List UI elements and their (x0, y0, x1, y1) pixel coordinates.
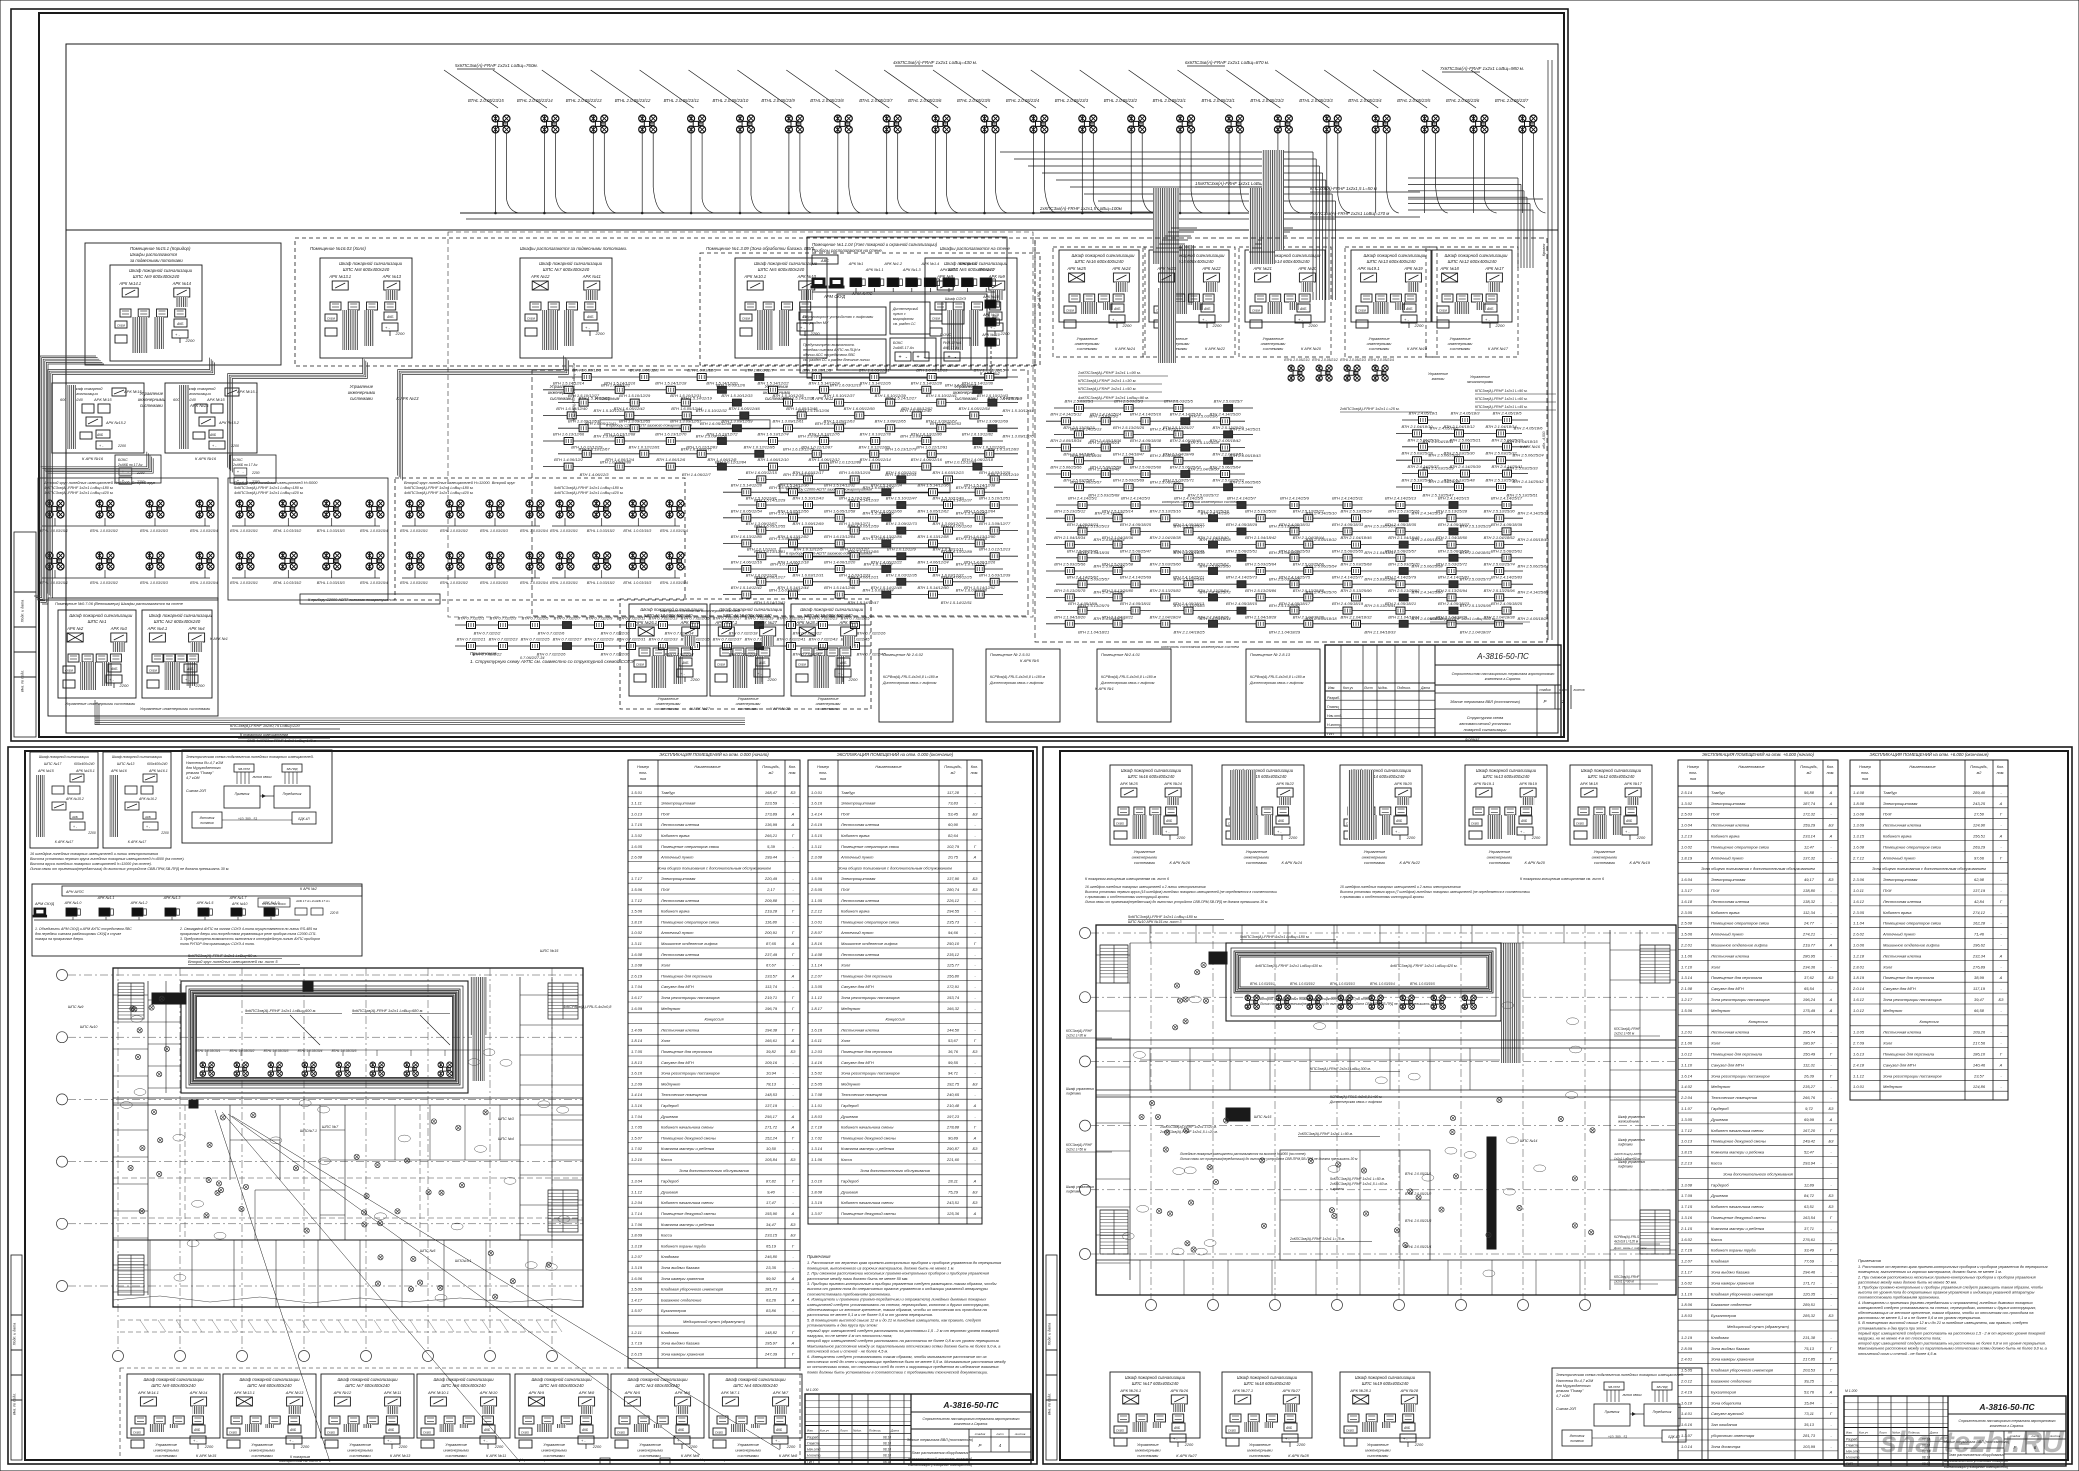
svg-text:Шкаф пожарной сигнализации: Шкаф пожарной сигнализации (69, 613, 133, 618)
svg-text:Г ОЧС: Г ОЧС (940, 333, 952, 337)
svg-text:АРК №1.5: АРК №1.5 (196, 901, 214, 905)
svg-text:АРК №28: АРК №28 (838, 620, 858, 625)
svg-text:АРК №10: АРК №10 (479, 1390, 498, 1395)
svg-text:АРК №2: АРК №2 (66, 626, 84, 631)
svg-text:2200: 2200 (1414, 1443, 1424, 1447)
svg-text:84,72: 84,72 (1804, 1193, 1815, 1198)
svg-text:280,95: 280,95 (1802, 953, 1816, 958)
svg-text:ПУИ: ПУИ (1711, 812, 1719, 817)
svg-text:+ -: + - (775, 1439, 780, 1443)
svg-text:Гардероб: Гардероб (841, 1179, 859, 1184)
svg-text:СКБИ: СКБИ (932, 317, 941, 321)
svg-text:Управление: Управление (1249, 1442, 1271, 1447)
svg-text:196,79: 196,79 (765, 1006, 778, 1011)
svg-text:67,67: 67,67 (766, 963, 777, 968)
svg-text:ВТН 2.4.14/25/77: ВТН 2.4.14/25/77 (1332, 575, 1364, 580)
svg-text:71,46: 71,46 (1974, 932, 1985, 937)
svg-text:АКБ 17 Ач: АКБ 17 Ач (942, 346, 959, 350)
svg-text:2.7.09: 2.7.09 (1852, 1041, 1865, 1046)
addressable detector chain ВТН 2.5.13/25 (1054, 433, 1253, 435)
svg-text:2200: 2200 (786, 1445, 796, 1449)
svg-text:ВТН 2.5.03/25/5: ВТН 2.5.03/25/5 (1164, 399, 1194, 404)
svg-text:159,29: 159,29 (1803, 823, 1816, 828)
svg-text:ВТН 1.0.12/12/89: ВТН 1.0.12/12/89 (859, 444, 891, 449)
svg-text:ВТН 1.4.06/12/18: ВТН 1.4.06/12/18 (777, 560, 809, 565)
svg-text:А: А (1829, 801, 1833, 806)
svg-text:ВТНL 2.0.05/23/12: ВТНL 2.0.05/23/12 (615, 98, 651, 103)
svg-text:2.0.12: 2.0.12 (1680, 1379, 1693, 1384)
svg-text:87,65: 87,65 (766, 941, 777, 946)
svg-text:ВТНL 1.0.03/15/2: ВТНL 1.0.03/15/2 (440, 529, 468, 533)
svg-text:АРК №15: АРК №15 (93, 397, 112, 402)
svg-text:режима "Пожар": режима "Пожар" (185, 771, 214, 775)
svg-text:Зона общего пользования с допо: Зона общего пользования с дополнительным… (1701, 866, 1815, 871)
svg-text:ВТН 1.6.03/12/25: ВТН 1.6.03/12/25 (979, 470, 1011, 475)
svg-text:103,99: 103,99 (1803, 1444, 1816, 1449)
svg-text:Медпункт: Медпункт (661, 1006, 681, 1011)
title block А-3816-50-ПС (805, 1394, 1031, 1464)
svg-text:ВТН 2.5.06/25/53: ВТН 2.5.06/25/53 (1279, 548, 1311, 553)
svg-text:Структурная схема: Структурная схема (1467, 716, 1503, 720)
svg-text:ВТН 2.4.14/25/17: ВТН 2.4.14/25/17 (1491, 496, 1523, 501)
svg-text:ВТН 2.4.05/18/34: ВТН 2.4.05/18/34 (1050, 438, 1082, 443)
svg-text:1.3.08: 1.3.08 (631, 963, 643, 968)
svg-text:2200: 2200 (195, 683, 206, 688)
svg-text:АРК №4.1: АРК №4.1 (147, 626, 168, 631)
svg-text:АКБ: АКБ (1395, 819, 1402, 823)
svg-text:ВТН 2.5.13/25/86: ВТН 2.5.13/25/86 (1245, 588, 1277, 593)
svg-text:ВТН 2.4.14/25/67: ВТН 2.4.14/25/67 (1067, 575, 1099, 580)
svg-text:ВТНL 1.0.03/15/4: ВТНL 1.0.03/15/4 (660, 581, 688, 585)
svg-text:3. Предусмотрена возможность в: 3. Предусмотрена возможность включения в… (180, 937, 320, 941)
svg-text:Р: Р (979, 1443, 982, 1448)
svg-text:199,44: 199,44 (765, 855, 778, 860)
svg-text:ВТН 2.4.05/18/17: ВТН 2.4.05/18/17 (1279, 601, 1311, 606)
svg-text:1.1.10: 1.1.10 (1681, 1062, 1693, 1067)
svg-text:Высота яруса линейных пожарных: Высота яруса линейных пожарных извещател… (30, 862, 152, 866)
svg-text:ВТН 1.4.06/12/14: ВТН 1.4.06/12/14 (860, 457, 892, 462)
svg-text:Второй ярус линейных извещател: Второй ярус линейных извещателей Н=11000… (44, 480, 155, 485)
svg-text:АКБ: АКБ (96, 433, 103, 437)
svg-text:4. Извещатели и приемники (при: 4. Извещатели и приемники (приемо-переда… (1858, 1301, 2034, 1305)
svg-text:2.2.07: 2.2.07 (810, 973, 823, 978)
svg-text:Управление: Управление (1489, 849, 1511, 854)
svg-text:116,80: 116,80 (765, 919, 778, 924)
svg-text:1.6.16: 1.6.16 (1681, 1422, 1693, 1427)
svg-text:+ -: + - (1202, 317, 1207, 322)
svg-text:2хКПС3хв(А)-FRHF 1х2х1,5 L=60: 2хКПС3хв(А)-FRHF 1х2х1,5 L=60 м. (1329, 1182, 1388, 1186)
svg-text:Зона дополнительного обслужива: Зона дополнительного обслуживания (679, 1168, 749, 1173)
svg-text:Высота установки первого яруса: Высота установки первого яруса линейных … (30, 857, 185, 861)
svg-text:ШПС№5.1: ШПС№5.1 (455, 1259, 472, 1263)
svg-text:ВТН 1.5.10/12/45: ВТН 1.5.10/12/45 (839, 496, 871, 501)
svg-text:ВТН 2.1.04/18/47: ВТН 2.1.04/18/47 (1113, 451, 1145, 456)
svg-text:АРК №1.0: АРК №1.0 (64, 901, 82, 905)
svg-text:2.7.12: 2.7.12 (1852, 855, 1865, 860)
svg-text:Помещение операторов связи: Помещение операторов связи (1883, 844, 1942, 849)
svg-text:2.4.19: 2.4.19 (1680, 1389, 1693, 1394)
fire alarm cabinet ШПС №5 (735, 258, 827, 358)
svg-text:113,74: 113,74 (765, 984, 778, 989)
svg-text:ВТН 1.6.13/12/80: ВТН 1.6.13/12/80 (911, 432, 943, 437)
addressable detector chain ВТН 2.5.13/25 (1046, 517, 1523, 519)
svg-text:2: 2 (1561, 699, 1565, 704)
svg-text:А: А (1999, 975, 2003, 980)
addressable detector chain ВТН 1.6.13/12 (723, 542, 1003, 544)
svg-text:1.7.04: 1.7.04 (631, 984, 643, 989)
svg-text:обл. -4,500: обл. -4,500 (1037, 292, 1041, 308)
svg-text:Помещение №2.4.01: Помещение №2.4.01 (1101, 652, 1140, 657)
svg-text:линия связи: линия связи (252, 775, 272, 779)
svg-text:с привязками и особенностями к: с привязками и особенностями конструкций… (1085, 895, 1170, 899)
svg-text:ПУИ: ПУИ (841, 811, 849, 816)
svg-text:26,39: 26,39 (1803, 1073, 1815, 1078)
fire alarm cabinet ШПС №5 (925, 258, 1017, 358)
svg-text:1.7.05: 1.7.05 (631, 1125, 643, 1130)
svg-text:4хКПС3хв(А)-FRHF 1х2х1 LoВщ=43: 4хКПС3хв(А)-FRHF 1х2х1 LoВщ=430 м. (893, 60, 977, 65)
svg-text:ВТН 2.4.05/18/31: ВТН 2.4.05/18/31 (1279, 522, 1310, 527)
svg-text:289,51: 289,51 (1802, 1302, 1815, 1307)
svg-text:ВТН 2.4.05/18/39: ВТН 2.4.05/18/39 (1491, 522, 1523, 527)
svg-text:А: А (791, 1125, 795, 1130)
svg-text:АРК №6: АРК №6 (674, 1390, 691, 1395)
svg-text:138,32: 138,32 (1803, 899, 1816, 904)
svg-text:АРК №1.1: АРК №1.1 (97, 896, 115, 900)
svg-text:Помещение дежурной смены: Помещение дежурной смены (1711, 1215, 1766, 1220)
svg-text:ВТН 1.6.05/12/60: ВТН 1.6.05/12/60 (871, 508, 903, 513)
svg-text:ВТН 2.4.14/25/13: ВТН 2.4.14/25/13 (1385, 496, 1417, 501)
svg-text:БДК-4Л: БДК-4Л (1668, 1435, 1680, 1439)
svg-text:Комната матери и ребенка: Комната матери и ребенка (1711, 1150, 1765, 1155)
svg-text:ВТН 2.5.13/25/18: ВТН 2.5.13/25/18 (1197, 509, 1229, 514)
svg-text:Кладовая: Кладовая (661, 1254, 679, 1259)
svg-text:Нач.отд.: Нач.отд. (807, 1448, 821, 1452)
svg-text:ШПС №3: ШПС №3 (498, 1117, 515, 1121)
svg-text:ВТН 1.5.14/12/50: ВТН 1.5.14/12/50 (917, 585, 949, 590)
svg-text:+ -: + - (289, 1439, 294, 1443)
svg-text:Шкаф пожарной сигнализации: Шкаф пожарной сигнализации (337, 1377, 398, 1382)
svg-text:Кабинет начальника смены: Кабинет начальника смены (841, 1200, 893, 1205)
svg-text:42,84: 42,84 (1974, 899, 1985, 904)
svg-text:210,48: 210,48 (946, 1103, 960, 1108)
svg-text:К АРК №27: К АРК №27 (690, 707, 711, 711)
addressable detector chain ВТН 2.4.14/25 (1402, 473, 1528, 475)
svg-text:Лестничная клетка: Лестничная клетка (840, 1027, 880, 1032)
svg-text:АКБ: АКБ (681, 661, 689, 665)
svg-text:Аптечный пункт: Аптечный пункт (1882, 855, 1916, 860)
svg-text:1.7.19: 1.7.19 (631, 1341, 643, 1346)
addressable detector chain ВТН 2.5.13/25 (1396, 486, 1522, 488)
svg-text:инженерными: инженерными (153, 1448, 179, 1453)
svg-text:системами: системами (1367, 1453, 1389, 1458)
svg-text:ВТН 1.6.03/12/37: ВТН 1.6.03/12/37 (932, 572, 964, 577)
svg-text:Электрощитовая: Электрощитовая (841, 801, 876, 806)
svg-text:ВТН 1.5.14/12/16: ВТН 1.5.14/12/16 (604, 380, 636, 385)
svg-text:ВТН 2.4.14/25/12: ВТН 2.4.14/25/12 (1050, 412, 1082, 417)
svg-text:системами: системами (1369, 347, 1390, 351)
svg-text:ВТН 2.5.03/25/32: ВТН 2.5.03/25/32 (1485, 451, 1517, 456)
svg-text:Шкаф пожарной сигнализации: Шкаф пожарной сигнализации (1581, 768, 1642, 773)
svg-text:ПУИ: ПУИ (1883, 888, 1891, 893)
svg-text:Технические помещения: Технические помещения (661, 1092, 708, 1097)
svg-text:1.3.18: 1.3.18 (631, 1243, 643, 1248)
svg-text:ВТН 2.1.04/18/24: ВТН 2.1.04/18/24 (1150, 614, 1182, 619)
svg-text:инженерными: инженерными (656, 702, 682, 706)
svg-text:помех должны быть установлены: помех должны быть установлены в соответс… (807, 1369, 988, 1374)
svg-text:2.1.06: 2.1.06 (1680, 1041, 1693, 1046)
svg-text:28,11: 28,11 (947, 1179, 958, 1184)
svg-text:Электрощитовая: Электрощитовая (1711, 801, 1746, 806)
svg-text:2200: 2200 (87, 831, 96, 835)
svg-text:К прибору С2000-АСПТ газового: К прибору С2000-АСПТ газового пожаротуше… (786, 487, 872, 491)
fire alarm cabinet ШПС №13 600х400х240 (1465, 765, 1547, 845)
fire alarm cabinet ШПС №6 600х400х240 (417, 1374, 510, 1438)
svg-text:ГИП: ГИП (1846, 1462, 1853, 1466)
svg-text:65,54: 65,54 (1804, 986, 1815, 991)
svg-text:контроль состояния инженерных: контроль состояния инженерных систем (1162, 500, 1238, 504)
svg-text:Наименование: Наименование (1738, 765, 1764, 769)
svg-text:А: А (791, 1297, 795, 1302)
svg-text:Подп. и дата: Подп. и дата (1048, 1323, 1052, 1346)
svg-text:1.7.02: 1.7.02 (811, 1135, 823, 1140)
svg-text:инженерными: инженерными (816, 702, 842, 706)
svg-text:240,65: 240,65 (946, 1092, 960, 1097)
svg-text:2хАКБ по 17 Ач: 2хАКБ по 17 Ач (117, 463, 143, 467)
svg-text:ВТН 2.4.05/18/23: ВТН 2.4.05/18/23 (1438, 601, 1470, 606)
svg-text:35,13: 35,13 (1804, 1422, 1815, 1427)
svg-text:Помещение дежурной смены: Помещение дежурной смены (661, 1211, 716, 1216)
addressable detector chain ВТН 1.4.06/12 (543, 466, 1003, 468)
svg-text:08.18: 08.18 (883, 1460, 891, 1464)
svg-text:1.3.05: 1.3.05 (811, 984, 823, 989)
svg-text:М 1:200: М 1:200 (806, 1388, 818, 1392)
svg-text:БЗ: БЗ (973, 1189, 979, 1194)
svg-text:Подп. и дата: Подп. и дата (13, 1323, 17, 1346)
svg-text:2200: 2200 (160, 831, 169, 835)
svg-text:БЗ: БЗ (973, 811, 979, 816)
svg-text:Кладовая: Кладовая (661, 1330, 679, 1335)
svg-text:Шкаф пожарной сигнализации: Шкаф пожарной сигнализации (39, 755, 89, 759)
svg-text:ВТН 2.5.06/25/56: ВТН 2.5.06/25/56 (1050, 465, 1082, 470)
svg-text:ШПС №14: ШПС №14 (1520, 1139, 1537, 1143)
svg-text:276,61: 276,61 (1802, 1237, 1815, 1242)
svg-text:Кабинет врача: Кабинет врача (661, 833, 690, 838)
svg-text:БОКС: БОКС (233, 458, 243, 462)
svg-text:1.3.14: 1.3.14 (811, 1146, 823, 1151)
svg-text:Электрощитовая: Электрощитовая (1711, 877, 1746, 882)
svg-text:КСРВхв(А)-FRLS: КСРВхв(А)-FRLS (1614, 1235, 1640, 1239)
svg-text:Шкаф пожарной сигнализации: Шкаф пожарной сигнализации (531, 1377, 592, 1382)
svg-text:1.1.05: 1.1.05 (811, 898, 823, 903)
svg-text:1.0.06: 1.0.06 (1853, 943, 1865, 948)
svg-text:ВТН 0.7.02/2/1: ВТН 0.7.02/2/1 (458, 616, 485, 621)
svg-text:ВТН 1.6.03/12/13: ВТН 1.6.03/12/13 (916, 368, 948, 373)
svg-text:Изм.: Изм. (1328, 686, 1335, 690)
svg-text:ВТН 2.5.03/25/73: ВТН 2.5.03/25/73 (1213, 478, 1245, 483)
svg-text:ВТН 1.3.09/12/70: ВТН 1.3.09/12/70 (1002, 434, 1034, 439)
svg-text:ВТН 1.4.06/12/26: ВТН 1.4.06/12/26 (964, 560, 996, 565)
svg-text:системами: системами (1489, 860, 1511, 865)
svg-text:ВТН 1.6.13/12/90: ВТН 1.6.13/12/90 (964, 534, 996, 539)
svg-text:Главнц: Главнц (1327, 705, 1339, 709)
svg-text:АРМ СКУД: АРМ СКУД (823, 294, 845, 299)
svg-text:Приборы располагаются на стене: Приборы располагаются на стене. (812, 248, 883, 253)
svg-text:Аптечный пункт: Аптечный пункт (840, 930, 874, 935)
svg-text:А-3816-50-ПС: А-3816-50-ПС (1978, 1402, 2035, 1412)
svg-text:290,87: 290,87 (946, 1146, 960, 1151)
svg-text:КПС3хв(А)-FRHF 1х2х0,75 LoВщ=2: КПС3хв(А)-FRHF 1х2х0,75 LoВщ=220 (230, 723, 300, 728)
svg-text:ВТН 1.0.12/12/91: ВТН 1.0.12/12/91 (916, 444, 947, 449)
svg-text:СКВО: СКВО (327, 1431, 336, 1435)
svg-text:77,69: 77,69 (1804, 1259, 1815, 1264)
svg-text:АРМ СКУД: АРМ СКУД (34, 902, 55, 906)
svg-text:196,24: 196,24 (1803, 997, 1816, 1002)
svg-text:Гардероб: Гардероб (661, 1179, 679, 1184)
svg-text:ВТН 1.4.06/12/18: ВТН 1.4.06/12/18 (962, 457, 994, 462)
svg-text:1.1.11: 1.1.11 (631, 801, 642, 806)
svg-text:5хКПС3хв(А)-FRHF 1х2х1 LoВщ=76: 5хКПС3хв(А)-FRHF 1х2х1 LoВщ=760м. (455, 63, 538, 68)
svg-text:Медпункт: Медпункт (841, 1006, 861, 1011)
svg-text:КСРВхв(А)-FRLS-4х2х0,8 L=180: КСРВхв(А)-FRLS-4х2х0,8 L=180 м (990, 675, 1046, 679)
svg-text:75,29: 75,29 (948, 1189, 959, 1194)
svg-text:Управление: Управление (737, 697, 758, 701)
svg-text:жалюзи: жалюзи (1431, 377, 1445, 381)
svg-text:271,72: 271,72 (764, 1125, 778, 1130)
svg-text:2.3.08: 2.3.08 (810, 855, 823, 860)
svg-text:ВТН 1.6.13/12/80: ВТН 1.6.13/12/80 (731, 534, 763, 539)
svg-text:ШПС №12 600х400х240: ШПС №12 600х400х240 (1588, 774, 1635, 779)
svg-text:Багажное отделение: Багажное отделение (1711, 1379, 1752, 1384)
svg-text:стадия: стадия (975, 1432, 986, 1436)
cable bundle (41, 452, 147, 467)
svg-text:ВТН 2.5.13/25/80: ВТН 2.5.13/25/80 (1102, 588, 1134, 593)
svg-text:1х2х1 L=90 м: 1х2х1 L=90 м (1614, 1280, 1634, 1284)
svg-text:АРК №22: АРК №22 (1275, 781, 1294, 786)
svg-text:ШПС №1: ШПС №1 (88, 619, 107, 624)
svg-text:Машинное отделение лифта: Машинное отделение лифта (1883, 943, 1940, 948)
svg-text:1.7.14: 1.7.14 (631, 1211, 643, 1216)
svg-text:ВТН 1.6.05/12/54: ВТН 1.6.05/12/54 (959, 406, 991, 411)
svg-text:ВТНL 1.0.03/15/4: ВТНL 1.0.03/15/4 (360, 529, 388, 533)
svg-text:ВТН 1.5.14/12/36: ВТН 1.5.14/12/36 (917, 483, 949, 488)
svg-text:Зона дополнительного обслужива: Зона дополнительного обслуживания (860, 1168, 930, 1173)
svg-text:+ -: + - (585, 325, 590, 330)
svg-text:Помещение операторов связи: Помещение операторов связи (841, 844, 900, 849)
svg-text:117,19: 117,19 (1973, 986, 1986, 991)
svg-text:148,53: 148,53 (765, 1092, 778, 1097)
svg-text:ВТНL 1.0.03/15/4: ВТНL 1.0.03/15/4 (1370, 982, 1395, 986)
svg-text:1.8.08: 1.8.08 (1853, 801, 1865, 806)
svg-text:Помещение № 2.5.01: Помещение № 2.5.01 (990, 652, 1030, 657)
svg-text:23,35: 23,35 (765, 1265, 777, 1270)
svg-text:2200: 2200 (398, 1445, 408, 1449)
svg-text:ВТН 1.6.03/12/33: ВТН 1.6.03/12/33 (839, 572, 871, 577)
svg-text:Помещение для персонала: Помещение для персонала (661, 973, 713, 978)
addressable detector chain ВТН 2.4.14/25 (1056, 583, 1533, 585)
title block А-3816-50-ПС (1844, 1396, 2066, 1466)
svg-text:АРК №1.1: АРК №1.1 (865, 268, 884, 272)
svg-text:А: А (791, 1038, 795, 1043)
svg-text:Душевая: Душевая (840, 1189, 859, 1194)
svg-text:ВТН 2.1.04/18/37: ВТН 2.1.04/18/37 (1460, 629, 1492, 634)
svg-text:ВТНL 1.0.03/15/3: ВТНL 1.0.03/15/3 (480, 529, 508, 533)
svg-text:ВТНL 1.0.03/15/3: ВТНL 1.0.03/15/3 (623, 581, 651, 585)
svg-text:для Муругодвенного: для Муругодвенного (1556, 1384, 1591, 1388)
fire alarm cabinet ШПС №9 600х400х240 (127, 1374, 220, 1438)
svg-text:АРК №1.3: АРК №1.3 (163, 896, 181, 900)
svg-text:ВТН 2.5.13/25/14: ВТН 2.5.13/25/14 (1102, 509, 1134, 514)
svg-text:ВТН 2.1.04/18/49: ВТН 2.1.04/18/49 (1163, 451, 1195, 456)
svg-text:1.6.05: 1.6.05 (631, 844, 643, 849)
svg-text:К АРК №13: К АРК №13 (390, 1453, 411, 1458)
svg-text:ВТНL 2.0.05/21/4: ВТНL 2.0.05/21/4 (1405, 1245, 1431, 1249)
svg-text:SB-ПРМ: SB-ПРМ (1608, 1385, 1620, 1389)
svg-text:ВТН 1.5.14/12/38: ВТН 1.5.14/12/38 (964, 483, 996, 488)
svg-text:1.8.03: 1.8.03 (811, 1114, 823, 1119)
svg-text:ВТН 1.6.03/12/19: ВТН 1.6.03/12/19 (839, 470, 871, 475)
svg-text:КПС3хв(А)-FRHF 2х2х1 LoВщ=500: КПС3хв(А)-FRHF 2х2х1 LoВщ=500 м (572, 363, 576, 421)
svg-text:Кабинет начальника смены: Кабинет начальника смены (1711, 1128, 1763, 1133)
svg-text:СКВО: СКВО (1576, 822, 1585, 826)
svg-text:1.4.14: 1.4.14 (811, 811, 823, 816)
svg-text:Шкаф пожарной сигнализации: Шкаф пожарной сигнализации (1355, 1375, 1416, 1380)
svg-text:181,73: 181,73 (765, 1287, 778, 1292)
svg-text:СКВО: СКВО (1116, 822, 1125, 826)
svg-text:75,13: 75,13 (1804, 1346, 1815, 1351)
svg-text:АРК №28.1: АРК №28.1 (1349, 1388, 1371, 1393)
svg-text:125,36: 125,36 (947, 1211, 960, 1216)
svg-text:235,73: 235,73 (946, 919, 960, 924)
svg-text:2.0.14: 2.0.14 (1852, 986, 1865, 991)
svg-text:АРК №16.1: АРК №16.1 (148, 769, 168, 773)
sheet frame (1043, 747, 2072, 1464)
svg-text:63,26: 63,26 (766, 1297, 777, 1302)
svg-text:ВТНL 1.0.03/15/1: ВТНL 1.0.03/15/1 (196, 1049, 221, 1053)
svg-text:Зона общего пользования с допо: Зона общего пользования с дополнительным… (1872, 866, 1986, 871)
svg-text:293,94: 293,94 (1802, 1161, 1816, 1166)
addressable detector chain ВТН 0.7.02/2 (455, 624, 871, 626)
svg-text:Здание терминала ВВЛ (постоянн: Здание терминала ВВЛ (постоянного) (907, 1438, 973, 1442)
svg-text:234,36: 234,36 (1802, 964, 1816, 969)
svg-text:Шкаф пожарной сигнализации: Шкаф пожарной сигнализации (539, 261, 603, 266)
svg-text:53,67: 53,67 (948, 1038, 959, 1043)
svg-text:Зона регистрации пассажиров: Зона регистрации пассажиров (1883, 997, 1942, 1002)
svg-text:ШПС №10: ШПС №10 (80, 1025, 97, 1029)
svg-text:Кабинет охраны труда: Кабинет охраны труда (1711, 1248, 1756, 1253)
svg-text:Зона выдачи багажа: Зона выдачи багажа (1711, 1346, 1750, 1351)
addressable detector chain ВТН 1.6.03/12 (738, 581, 1018, 583)
svg-text:97,66: 97,66 (1974, 855, 1985, 860)
svg-text:39,82: 39,82 (766, 1049, 777, 1054)
svg-text:АРК №20: АРК №20 (1393, 781, 1412, 786)
svg-text:ВТН 2.5.13/25/24: ВТН 2.5.13/25/24 (1340, 509, 1372, 514)
svg-text:Медпункт: Медпункт (661, 1081, 681, 1086)
svg-text:235,12: 235,12 (946, 952, 960, 957)
svg-text:+ -: + - (581, 1439, 586, 1443)
svg-text:ВТН 1.6.03/12/5: ВТН 1.6.03/12/5 (687, 368, 717, 373)
svg-text:инженерными: инженерными (1135, 1448, 1161, 1453)
svg-text:Зона камеры хранения: Зона камеры хранения (661, 1351, 705, 1356)
svg-text:ГИП-12 №1 БОКС: ГИП-12 №1 БОКС (262, 902, 287, 906)
svg-text:1.5.06: 1.5.06 (1681, 1008, 1693, 1013)
svg-text:ВТН 1.6.05/12/48: ВТН 1.6.05/12/48 (786, 406, 818, 411)
svg-text:К АРК №8: К АРК №8 (779, 1453, 798, 1458)
svg-text:К АРК №20: К АРК №20 (1301, 347, 1322, 351)
svg-text:ВТН 2.5.03/25/68: ВТН 2.5.03/25/68 (1340, 562, 1372, 567)
svg-text:+10..300 - S1: +10..300 - S1 (238, 817, 257, 821)
svg-text:266,21: 266,21 (764, 833, 777, 838)
svg-text:1.7.12: 1.7.12 (1681, 1128, 1693, 1133)
